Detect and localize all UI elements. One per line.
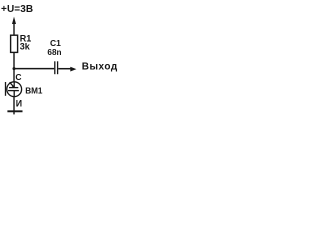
svg-text:3k: 3k bbox=[20, 42, 31, 52]
output arrow bbox=[70, 67, 76, 72]
internal drain stub bbox=[13, 82, 15, 88]
svg-text:+U=3В: +U=3В bbox=[1, 4, 33, 15]
svg-text:ВМ1: ВМ1 bbox=[25, 87, 43, 96]
node junction bbox=[13, 67, 16, 70]
power supply arrow bbox=[12, 17, 16, 36]
svg-text:Выход: Выход bbox=[82, 61, 118, 72]
ground bbox=[7, 110, 22, 112]
svg-text:C1: C1 bbox=[50, 38, 61, 48]
wire junction to capacitor bbox=[14, 68, 54, 70]
resistor R1 bbox=[11, 35, 18, 52]
microphone BM1 bbox=[6, 82, 22, 97]
wire resistor bottom to junction bbox=[13, 52, 15, 68]
capacitor plate top bbox=[9, 87, 18, 89]
wire capacitor to output arrow bbox=[58, 68, 71, 70]
capacitor plate bottom bbox=[8, 90, 19, 92]
electret arrow bbox=[10, 82, 14, 87]
wire microphone to ground bbox=[13, 97, 15, 115]
svg-text:И: И bbox=[16, 98, 22, 108]
svg-text:С: С bbox=[15, 72, 21, 82]
capacitor C1 bbox=[55, 61, 58, 74]
svg-text:68n: 68n bbox=[47, 48, 61, 57]
wire junction down to microphone bbox=[13, 69, 15, 82]
internal source stub bbox=[13, 91, 15, 97]
membrane line bbox=[5, 82, 7, 96]
